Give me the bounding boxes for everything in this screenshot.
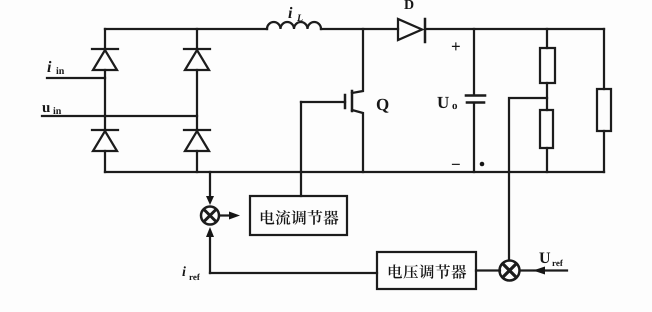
wire: bridge left branch [104,29,106,172]
wire: capacitor branch upper [473,29,475,95]
wire: load branch top [603,29,605,89]
wire: gate drive line down to current regulator [300,102,302,196]
transistor Q1 channel bar [351,91,354,111]
transistor Q1 (MOSFET) drain lead [352,29,363,93]
svg-text:u: u [42,100,50,116]
wire: voltage sense tap [509,98,547,260]
wire: divider branch top [546,29,548,48]
wire: voltage regulator to X2 [476,269,500,271]
wire: divider branch bottom [546,148,548,172]
wire: top rail [105,28,604,30]
label i_L [288,5,303,24]
label i_in [47,59,65,77]
transistor Q1 source lead [352,110,363,172]
svg-text:ref: ref [552,258,564,268]
resistor R1 (upper divider) [540,48,555,83]
wire: gate lead [301,101,345,103]
wire: i_ref arrow up into X1 [206,227,214,273]
svg-text:L: L [296,13,303,24]
label D [404,0,414,13]
diode D1 (bridge upper-left) [92,49,118,70]
label - [451,155,461,174]
svg-text:i: i [47,59,52,76]
label + [451,37,461,56]
node: junction dot on bottom rail [480,162,485,167]
resistor R2 (lower divider) [540,110,553,148]
inductor L [267,22,321,29]
block: voltage regulator box [377,252,476,289]
diode D (boost diode) [398,19,425,42]
wire: load branch bottom [603,131,605,172]
wire: input line u_in [42,115,197,117]
label i_ref [182,265,201,282]
label Uo [437,93,458,112]
label u_in [42,100,62,117]
diode D3 (bridge lower-left) [92,130,118,151]
transistor Q1 gate bar [344,95,347,108]
label U_ref [539,250,564,268]
svg-text:−: − [451,155,461,174]
svg-text:i: i [182,265,186,280]
resistor R3 (load) [597,89,611,131]
svg-text:Q: Q [376,95,389,114]
wire: capacitor branch lower [473,103,475,172]
wire: i_ref line [210,272,377,274]
summer X1 (current error) [201,207,219,225]
svg-text:in: in [53,106,62,117]
wire: current sense drop with arrow [206,172,214,205]
svg-text:U: U [437,93,449,112]
svg-text:i: i [288,5,293,22]
svg-text:D: D [404,0,414,13]
wire: U_ref input with arrow [520,267,567,275]
wire: X1 output arrow to current regulator [219,212,240,220]
diode D4 (bridge lower-right) [184,130,210,151]
wire: bottom rail [105,171,604,173]
wire: input line i_in [47,77,105,79]
block: current regulator box [250,196,347,235]
label: voltage regulator text [389,264,466,279]
summer X2 (voltage error) [500,261,520,281]
svg-text:in: in [56,66,65,77]
svg-text:o: o [452,100,458,112]
svg-text:ref: ref [189,272,201,282]
svg-text:+: + [451,37,461,56]
diode D2 (bridge upper-right) [184,49,210,70]
label Q [376,95,389,114]
capacitor C1 [466,96,485,103]
svg-text:U: U [539,250,551,267]
wire: divider middle [546,83,548,110]
label: current regulator text [261,210,339,225]
wire: bridge right branch [196,29,198,172]
